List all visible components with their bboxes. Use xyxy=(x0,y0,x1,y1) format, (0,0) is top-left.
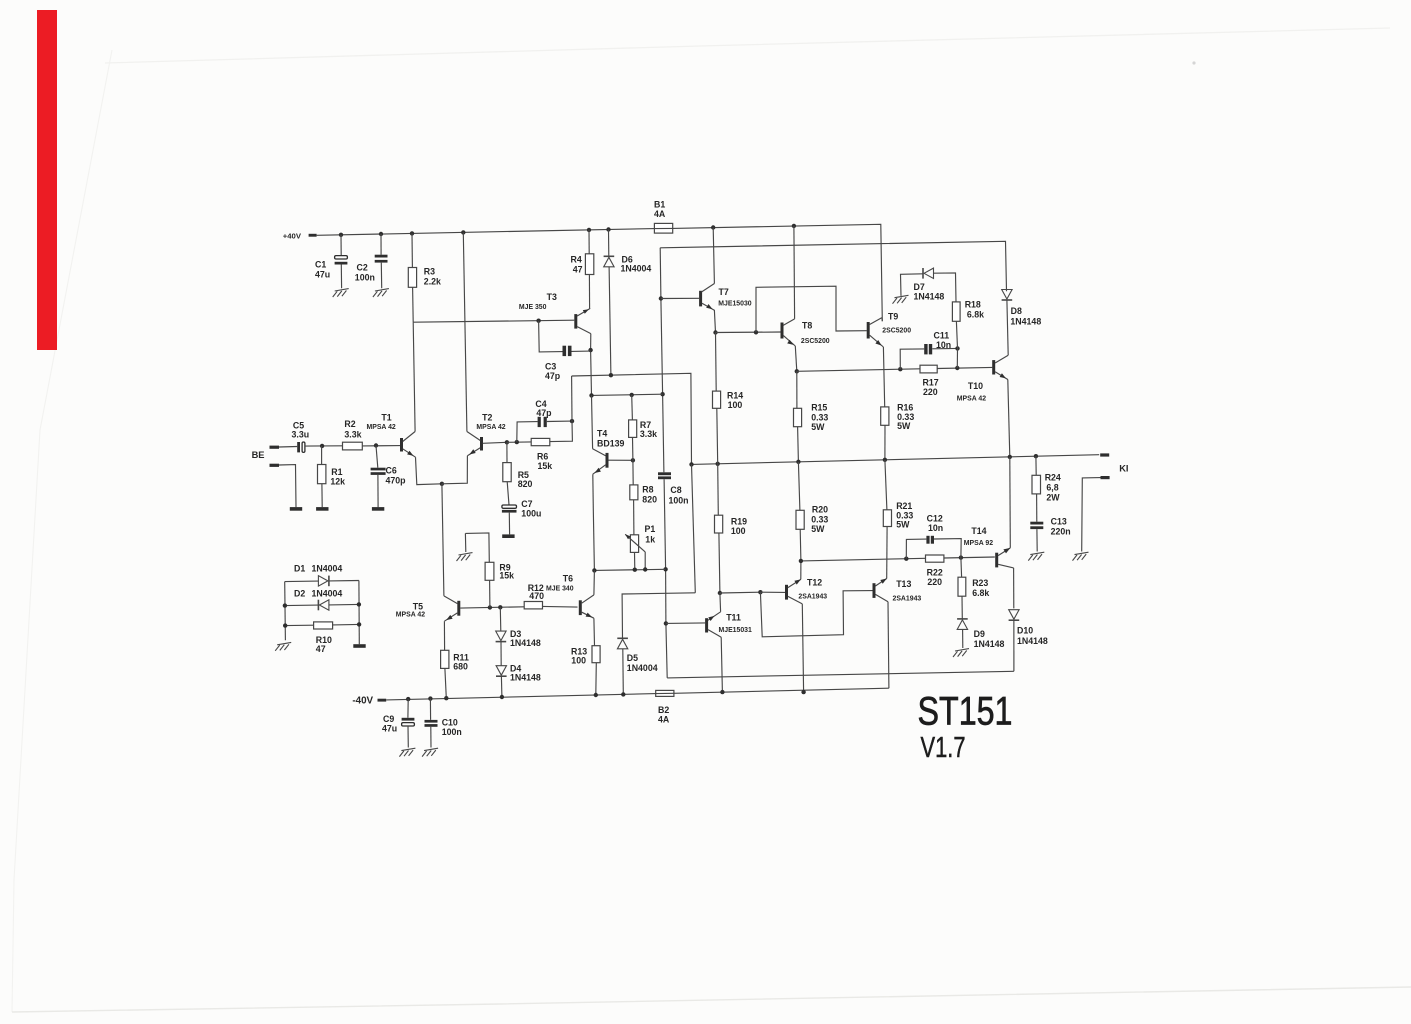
node output/R24 junction xyxy=(1034,454,1038,458)
diode D2 1N4004 xyxy=(285,604,319,607)
ground (C10) xyxy=(424,748,438,750)
hidden red scan bar (alpha-dropped artifact) xyxy=(37,10,57,350)
node C9/-40V junction xyxy=(406,697,410,701)
svg-text:4A: 4A xyxy=(658,715,670,725)
svg-text:1N4148: 1N4148 xyxy=(914,292,945,302)
diode D4 1N4148 xyxy=(500,642,502,666)
svg-text:D10: D10 xyxy=(1017,625,1033,635)
svg-text:2SA1943: 2SA1943 xyxy=(798,594,827,601)
fuse B2 xyxy=(656,690,674,696)
wire T3 base line from R3 xyxy=(413,320,574,322)
wire T2 base to feedback node xyxy=(483,442,507,443)
svg-text:T9: T9 xyxy=(888,311,898,321)
resistor R14 100 xyxy=(715,333,718,392)
wire T8 collector to rail xyxy=(793,226,796,319)
wire upper bias rail (T7 base bus to D8) xyxy=(660,241,1006,291)
svg-text:2W: 2W xyxy=(1046,492,1060,502)
wire KI return to ground xyxy=(1082,478,1101,552)
node C3 left riser junction xyxy=(536,319,540,323)
wire T4 base to R7/R8 divider xyxy=(608,459,633,461)
svg-text:820: 820 xyxy=(642,494,657,504)
svg-text:5W: 5W xyxy=(811,524,825,534)
svg-text:0.33: 0.33 xyxy=(811,412,828,422)
scanner page edge artifacts (faint) xyxy=(105,28,1390,63)
node T7 base junction xyxy=(659,296,663,300)
wire R6 right to C4 right riser xyxy=(550,421,573,442)
node T4 base/R7/R8 junction xyxy=(631,458,635,462)
svg-text:3.3u: 3.3u xyxy=(292,430,310,440)
wire output bus (KI line) xyxy=(692,455,1100,465)
node P1 body junction xyxy=(633,568,637,572)
node C3/T3 collector junction xyxy=(588,348,592,352)
-40V terminal tick xyxy=(378,699,387,702)
node R1/C5 junction xyxy=(320,444,324,448)
svg-text:47: 47 xyxy=(316,644,326,654)
resistor R18 6.8k xyxy=(952,302,960,321)
svg-text:47u: 47u xyxy=(315,270,330,280)
svg-text:D1: D1 xyxy=(294,564,305,574)
node D2 left junction xyxy=(283,603,287,607)
svg-text:MJE15030: MJE15030 xyxy=(718,301,751,308)
resistor R20 0.33 5W xyxy=(798,462,800,511)
wire bias network bus (R20 bottom to T14 base) xyxy=(801,558,926,561)
svg-text:P1: P1 xyxy=(645,524,656,534)
transistor T6 MJE340 (NPN) xyxy=(579,600,582,615)
node output/catch-line junction xyxy=(689,462,693,466)
wire T3 collector vertical xyxy=(590,334,592,351)
svg-text:T11: T11 xyxy=(726,613,741,623)
svg-text:220: 220 xyxy=(923,387,938,397)
wire T12 emitter up to R20 xyxy=(800,561,802,580)
node R7 riser junction xyxy=(630,393,634,397)
wire T4 emitter down to bias chain xyxy=(592,474,595,509)
ground (D1/D2 right, bar style) xyxy=(353,644,365,648)
node T3 collector/R7 branch junction xyxy=(589,393,593,397)
svg-text:5W: 5W xyxy=(896,520,910,530)
capacitor C12 10n xyxy=(906,539,926,559)
svg-text:T1: T1 xyxy=(381,412,391,422)
svg-text:R15: R15 xyxy=(811,403,827,413)
node R13/-40V junction xyxy=(594,693,598,697)
node D5/-40V junction xyxy=(621,692,625,696)
svg-text:B2: B2 xyxy=(658,705,669,715)
svg-text:0.33: 0.33 xyxy=(811,514,828,524)
svg-text:C13: C13 xyxy=(1051,517,1067,527)
node T2 base junction xyxy=(505,440,509,444)
svg-text:1N4004: 1N4004 xyxy=(312,588,343,598)
svg-text:2.2k: 2.2k xyxy=(424,277,441,287)
ground (input return, bar style) xyxy=(290,507,302,511)
svg-text:2SC5200: 2SC5200 xyxy=(801,338,830,345)
resistor R24 6.8 2W xyxy=(1035,456,1037,475)
ground (D9) xyxy=(955,649,969,651)
wire T7 collector to rail xyxy=(713,228,714,284)
capacitor C2 100n xyxy=(380,234,382,255)
node C11 left junction xyxy=(898,367,902,371)
transistor T4 BD139 (Vbe multiplier, mirrored) xyxy=(606,453,609,468)
transistor T11 MJE15031 (PNP driver) xyxy=(705,618,708,632)
svg-text:+40V: +40V xyxy=(283,232,302,241)
wire bias chain horizontal (T6 collector to VAS bus) xyxy=(594,569,665,570)
svg-text:BE: BE xyxy=(252,450,265,460)
svg-text:C2: C2 xyxy=(357,263,368,273)
svg-text:ST151: ST151 xyxy=(918,690,1013,734)
node R10 left junction xyxy=(283,623,287,627)
svg-text:680: 680 xyxy=(453,661,468,671)
node T6 collector junction xyxy=(592,568,596,572)
wire T9 collector to rail corner xyxy=(881,318,883,322)
wire driver bias bus (T8 emitter to T10 base) xyxy=(797,369,920,372)
capacitor C3 47p xyxy=(539,321,563,352)
capacitor C10 100n xyxy=(429,699,431,720)
resistor R23 6.8k xyxy=(960,558,963,578)
svg-text:D2: D2 xyxy=(294,588,305,598)
wire T10 emitter to output node xyxy=(1008,380,1010,457)
svg-text:T12: T12 xyxy=(807,578,822,588)
svg-text:T7: T7 xyxy=(719,287,729,297)
svg-text:C12: C12 xyxy=(927,513,943,523)
node C12 right/R23 junction xyxy=(959,555,963,559)
wire +40V rail (left of fuse B1) xyxy=(317,229,655,236)
KI output terminal tick xyxy=(1100,453,1109,456)
svg-text:R14: R14 xyxy=(727,390,743,400)
svg-text:220: 220 xyxy=(927,577,942,587)
svg-text:T10: T10 xyxy=(968,381,983,391)
node output/R16-R21 junction xyxy=(883,458,887,462)
diode D9 1N4148 xyxy=(957,618,968,620)
node R11/-40V junction xyxy=(444,696,448,700)
svg-text:100: 100 xyxy=(731,526,746,536)
node C8/VAS junction xyxy=(660,392,664,396)
svg-text:47: 47 xyxy=(573,264,583,274)
ground (C1) xyxy=(335,289,349,291)
svg-text:R24: R24 xyxy=(1045,473,1061,483)
resistor R15 0.33 5W xyxy=(794,408,802,426)
capacitor C6 470p xyxy=(376,446,378,468)
wire T6 collector up to bias chain xyxy=(593,570,596,595)
svg-text:100: 100 xyxy=(571,656,586,666)
node output/T10-T14 junction xyxy=(1008,455,1012,459)
node C6/T1 base junction xyxy=(374,443,378,447)
wire T12 base link xyxy=(720,591,761,594)
svg-text:MJE 340: MJE 340 xyxy=(546,585,574,592)
node R10 right junction xyxy=(357,622,361,626)
ground (R1, bar style) xyxy=(316,507,328,511)
node T8 base riser junction xyxy=(754,330,758,334)
svg-text:BD139: BD139 xyxy=(597,439,624,449)
diode D7 1N4148 xyxy=(901,274,923,296)
resistor R12 470 xyxy=(524,602,542,609)
node R9 bottom junction xyxy=(488,605,492,609)
node C1/+40V junction xyxy=(339,233,343,237)
wire T8 base link xyxy=(716,331,781,334)
svg-text:1N4148: 1N4148 xyxy=(510,672,541,682)
svg-text:220n: 220n xyxy=(1051,527,1071,537)
ground (KI return) xyxy=(1075,552,1089,554)
node T12/T13 base stair junction xyxy=(758,590,762,594)
wire catch line vertical (output to D5) xyxy=(692,464,696,592)
ground (C9) xyxy=(401,748,415,750)
svg-text:MPSA 42: MPSA 42 xyxy=(396,612,425,619)
wire +40V rail (right of fuse B1) xyxy=(673,224,883,321)
svg-text:1N4004: 1N4004 xyxy=(627,663,658,673)
resistor R22 220 xyxy=(926,555,944,562)
svg-text:15k: 15k xyxy=(538,461,553,471)
svg-text:3.3k: 3.3k xyxy=(344,429,361,439)
svg-text:T6: T6 xyxy=(563,573,573,583)
node T8 emitter/driver bus junction xyxy=(795,369,799,373)
wire T14 emitter up to output junction xyxy=(1009,457,1012,548)
svg-text:T13: T13 xyxy=(896,579,911,589)
svg-text:C1: C1 xyxy=(315,260,326,270)
potentiometer P1 1k xyxy=(630,535,638,553)
svg-text:C10: C10 xyxy=(442,717,458,727)
node output/R15-R20 junction xyxy=(796,460,800,464)
node D4/-40V junction xyxy=(500,695,504,699)
svg-text:12k: 12k xyxy=(330,477,345,487)
wire T1 collector to R3 xyxy=(413,322,415,431)
svg-text:100n: 100n xyxy=(669,495,689,505)
node R3/+40V junction xyxy=(410,231,414,235)
svg-text:R8: R8 xyxy=(642,485,653,495)
node P1 wiper junction xyxy=(643,567,647,571)
resistor R16 0.33 5W xyxy=(881,407,889,425)
capacitor C7 100u (electrolytic) xyxy=(507,482,509,505)
ground (R9) xyxy=(459,553,473,555)
wire T6 emitter to R13 xyxy=(593,618,596,646)
svg-text:1N4148: 1N4148 xyxy=(974,639,1005,649)
transistor T1 MPSA42 (NPN, input pair) xyxy=(400,438,403,452)
svg-text:C8: C8 xyxy=(670,485,681,495)
wire D1/D2/R10 left leg xyxy=(284,582,287,641)
transistor T12 2SA1943 (PNP output) xyxy=(785,585,788,600)
wire T11 emitter up to R19 node xyxy=(719,593,722,612)
node T8-collector/+40V junction xyxy=(792,224,796,228)
svg-text:R19: R19 xyxy=(731,516,747,526)
wire feedback/catch line (C4-R6 node to output node) xyxy=(572,373,692,464)
svg-text:B1: B1 xyxy=(654,200,665,210)
svg-text:T4: T4 xyxy=(597,429,607,439)
svg-text:R3: R3 xyxy=(424,267,435,277)
transistor T14 MPSA92 (PNP) xyxy=(995,553,998,568)
wire -40V rail (right of fuse B2) xyxy=(674,688,889,693)
resistor R10 47 xyxy=(285,624,313,626)
wire T7 emitter to R14 xyxy=(714,310,715,332)
node C4/R6 right junction xyxy=(570,419,574,423)
resistor R9 15k xyxy=(465,533,489,562)
node R17/R18 junction xyxy=(955,366,959,370)
ground (D7) xyxy=(895,295,909,297)
node T2-collector/+40V junction xyxy=(461,230,465,234)
svg-text:470: 470 xyxy=(529,591,544,601)
wire T11 base from VAS bus xyxy=(666,622,705,625)
svg-text:5W: 5W xyxy=(897,421,911,431)
diode D10 1N4148 xyxy=(1009,619,1020,621)
svg-text:T14: T14 xyxy=(971,526,986,536)
wire T11 collector to -40V rail xyxy=(721,637,722,692)
capacitor C8 100n xyxy=(658,472,671,475)
wire T1 emitter to tail xyxy=(416,457,442,484)
capacitor C9 47u (electrolytic) xyxy=(407,699,409,718)
transistor T7 MJE15030 (NPN driver) xyxy=(699,291,702,307)
resistor R4 47 xyxy=(588,230,590,254)
ground (C6, bar style) xyxy=(372,507,384,511)
transistor T5 emitter resistor R11 680 xyxy=(443,621,445,650)
fuse B1 xyxy=(654,223,672,233)
svg-text:R4: R4 xyxy=(571,255,582,265)
svg-text:10n: 10n xyxy=(936,340,951,350)
resistor R5 820 xyxy=(506,442,508,462)
svg-text:MPSA 42: MPSA 42 xyxy=(367,424,396,431)
svg-text:MJE 350: MJE 350 xyxy=(519,304,547,311)
svg-text:100: 100 xyxy=(728,400,743,410)
wire T7 base from VAS bus xyxy=(661,297,699,299)
svg-text:100n: 100n xyxy=(442,727,462,737)
svg-text:D9: D9 xyxy=(974,629,985,639)
wire T13 emitter up to R21 xyxy=(886,527,888,579)
wire T2 collector to +40V rail xyxy=(463,232,467,431)
svg-text:D8: D8 xyxy=(1011,306,1022,316)
diode D1 1N4004 xyxy=(285,580,319,583)
svg-text:T8: T8 xyxy=(802,321,812,331)
KI return terminal tick xyxy=(1101,476,1110,479)
transistor T8 2SC5200 (NPN output) xyxy=(781,323,784,339)
svg-text:470p: 470p xyxy=(386,475,407,485)
wire T8/T9 base riser xyxy=(756,286,867,332)
diode D3 1N4148 xyxy=(499,607,502,631)
svg-text:1N4004: 1N4004 xyxy=(312,564,343,574)
wire T9 emitter chain to R16 xyxy=(883,347,884,407)
node D6/feedback line junction xyxy=(609,373,613,377)
wire tail down to T5 collector xyxy=(442,484,444,596)
BE input terminal tick (signal) xyxy=(270,446,280,449)
svg-text:100n: 100n xyxy=(355,273,375,283)
transistor T9 2SC5200 (NPN output) xyxy=(867,322,870,339)
svg-text:1N4148: 1N4148 xyxy=(1017,636,1048,646)
wire T14 collector down through D10 xyxy=(1013,568,1015,609)
svg-text:R22: R22 xyxy=(927,568,943,578)
wire D10 to VAS bus lower corner xyxy=(667,671,1014,678)
node T11 base junction xyxy=(664,621,668,625)
ground (C7, bar style) xyxy=(502,534,514,538)
resistor R7 3.3k xyxy=(629,420,637,438)
svg-text:MPSA 42: MPSA 42 xyxy=(957,395,986,402)
ground (C2) xyxy=(375,289,389,291)
svg-text:100u: 100u xyxy=(521,508,541,518)
node R18/C11 junction xyxy=(955,346,959,350)
transistor T2 MPSA42 (NPN, input pair, mirrored) xyxy=(480,437,483,451)
svg-text:R1: R1 xyxy=(331,467,342,477)
resistor R3 2.2k xyxy=(411,233,413,267)
svg-text:-40V: -40V xyxy=(352,696,373,707)
wire C4/R6 node riser to feedback line xyxy=(571,376,573,421)
resistor R2 3.3k xyxy=(343,442,363,450)
transistor T3 MJE350 (PNP) xyxy=(574,314,577,329)
wire T2 base to R6/C4 network xyxy=(507,441,531,443)
svg-text:1k: 1k xyxy=(645,535,655,545)
resistor R6 15k xyxy=(531,438,550,445)
svg-text:R23: R23 xyxy=(972,578,988,588)
svg-text:R17: R17 xyxy=(923,378,939,388)
svg-text:820: 820 xyxy=(518,479,533,489)
svg-text:R6: R6 xyxy=(537,452,548,462)
svg-text:V1.7: V1.7 xyxy=(921,732,966,764)
resistor R21 0.33 5W xyxy=(885,460,887,510)
wire T12 collector to -40V rail xyxy=(802,604,803,692)
node R4/+40V junction xyxy=(587,228,591,232)
node tail junction xyxy=(440,482,444,486)
svg-text:T3: T3 xyxy=(547,292,557,302)
transistor T5 MPSA42 (NPN current source, mirrored) xyxy=(457,601,460,616)
node R19/T11 emitter/T12 base junction xyxy=(718,591,722,595)
svg-text:47p: 47p xyxy=(536,408,552,418)
svg-text:R18: R18 xyxy=(965,300,981,310)
diode D5 1N4004 (rail catch, negative) xyxy=(622,593,695,638)
node C2/+40V junction xyxy=(379,232,383,236)
svg-text:MPSA 42: MPSA 42 xyxy=(476,424,505,431)
capacitor C11 10n xyxy=(900,349,924,369)
svg-text:1N4148: 1N4148 xyxy=(1010,316,1041,326)
wire VAS bus (rail-2 corner, T7 base, C8, T11 base) xyxy=(659,248,662,299)
svg-text:MJE15031: MJE15031 xyxy=(719,627,752,634)
svg-text:C9: C9 xyxy=(383,714,394,724)
wire T8 emitter chain to R15 xyxy=(795,346,797,371)
capacitor C13 220n xyxy=(1030,522,1043,525)
ground (D1/D2 left) xyxy=(277,642,291,644)
svg-text:D5: D5 xyxy=(627,653,638,663)
node T11 collector/-40V junction xyxy=(720,690,724,694)
svg-text:R2: R2 xyxy=(344,419,355,429)
node output/R14 junction xyxy=(716,462,720,466)
wire T5 base line to R9/D3/R12 xyxy=(460,607,524,608)
BE input terminal tick (return) xyxy=(270,464,280,467)
svg-text:C6: C6 xyxy=(386,465,397,475)
node T7 emitter/R14/T8-base junction xyxy=(713,330,717,334)
diode D8 1N4148 xyxy=(1002,299,1013,301)
svg-text:5W: 5W xyxy=(811,422,825,432)
capacitor C1 47u (electrolytic) xyxy=(340,235,342,256)
capacitor C4 47p xyxy=(517,422,538,443)
wire D1/D2/R10 right leg xyxy=(358,581,360,645)
wire -40V rail (left of fuse B2) xyxy=(386,694,656,700)
svg-text:2SA1943: 2SA1943 xyxy=(893,596,922,603)
capacitor C5 3.3u xyxy=(279,446,297,449)
node C12 left junction xyxy=(904,557,908,561)
svg-text:R20: R20 xyxy=(812,505,828,515)
transistor T10 MPSA42 (NPN) xyxy=(992,360,995,374)
svg-text:47p: 47p xyxy=(545,371,561,381)
node P1 line / VAS bus junction xyxy=(663,567,667,571)
svg-text:6.8k: 6.8k xyxy=(967,310,984,320)
node R20/T12 emitter junction xyxy=(799,559,803,563)
resistor R8 820 xyxy=(632,460,634,485)
wire input to R2 xyxy=(322,445,342,447)
resistor R13 100 xyxy=(592,646,600,663)
svg-text:4A: 4A xyxy=(654,209,666,219)
node T7-collector/+40V junction xyxy=(711,225,715,229)
node D2 right junction xyxy=(357,602,361,606)
svg-text:T5: T5 xyxy=(413,601,423,611)
diode D6 1N4004 (rail catch) xyxy=(608,230,610,257)
resistor R1 12k xyxy=(321,446,323,465)
wire T3 collector branch to R7 top and VAS bus xyxy=(592,394,663,395)
wire T13 collector down (rail right end) xyxy=(887,602,890,689)
svg-text:15k: 15k xyxy=(499,570,514,580)
wire T2 emitter to tail xyxy=(442,456,468,484)
svg-text:1N4004: 1N4004 xyxy=(621,263,652,273)
+40V terminal tick xyxy=(309,234,317,237)
svg-text:MPSA 92: MPSA 92 xyxy=(964,540,993,547)
